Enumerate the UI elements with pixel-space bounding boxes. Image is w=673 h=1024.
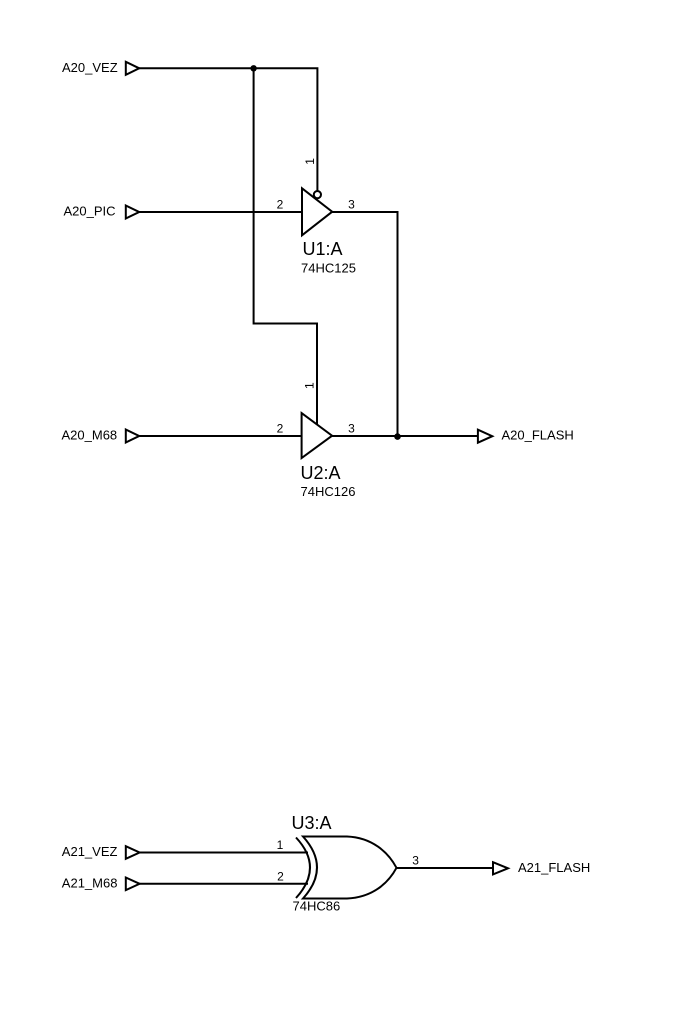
svg-text:3: 3 xyxy=(348,198,355,212)
svg-text:74HC125: 74HC125 xyxy=(301,260,356,275)
svg-text:A21_M68: A21_M68 xyxy=(62,875,118,890)
svg-text:2: 2 xyxy=(277,422,284,436)
svg-text:1: 1 xyxy=(303,382,317,389)
svg-text:U3:A: U3:A xyxy=(292,813,332,833)
svg-text:U1:A: U1:A xyxy=(303,239,343,259)
svg-text:A20_M68: A20_M68 xyxy=(62,428,118,443)
svg-text:1: 1 xyxy=(303,158,317,165)
svg-text:3: 3 xyxy=(348,422,355,436)
svg-text:2: 2 xyxy=(277,870,284,884)
svg-text:74HC86: 74HC86 xyxy=(293,899,341,914)
svg-text:74HC126: 74HC126 xyxy=(301,484,356,499)
svg-text:A21_VEZ: A21_VEZ xyxy=(62,844,118,859)
svg-text:A20_VEZ: A20_VEZ xyxy=(62,60,118,75)
svg-text:1: 1 xyxy=(277,838,284,852)
svg-text:2: 2 xyxy=(277,198,284,212)
svg-text:3: 3 xyxy=(412,854,419,868)
svg-text:A20_PIC: A20_PIC xyxy=(64,204,116,219)
svg-text:A21_FLASH: A21_FLASH xyxy=(518,860,590,875)
svg-text:A20_FLASH: A20_FLASH xyxy=(502,428,574,443)
svg-text:U2:A: U2:A xyxy=(301,463,341,483)
